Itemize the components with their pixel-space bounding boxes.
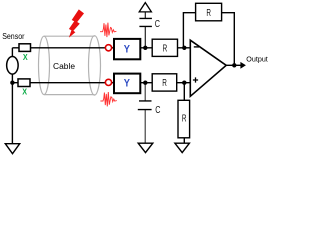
ground up triangle C1 [139,3,151,12]
svg-text:Cable: Cable [53,62,76,71]
noise burst top [100,23,116,37]
ground sensor [5,144,19,154]
junction sensor [10,81,14,85]
junction C1 tap [143,46,147,50]
wire top row [12,47,190,49]
output wire [226,64,241,66]
svg-text:R: R [163,43,168,55]
junction C2 tap [143,81,147,85]
wire C2 vertical [144,83,146,144]
svg-text:Sensor: Sensor [2,32,25,41]
svg-text:C: C [155,104,160,116]
wire R3 vertical [183,83,185,144]
connector node bottom red circle [105,79,111,85]
box X2 [18,79,30,87]
junction plus node [182,81,186,85]
svg-text:Output: Output [246,54,268,63]
resistor R4 feedback [196,3,222,21]
junction output node [232,63,236,67]
wire C1 vertical [144,12,146,48]
box Y1 [114,39,140,59]
svg-text:R: R [206,7,211,19]
lightning bolt EMI [69,9,84,37]
resistor R3 [178,100,190,138]
op-amp U1 [190,40,226,96]
svg-text:Y: Y [124,78,131,90]
capacitor C2 plates [138,101,152,110]
svg-text:R: R [182,113,187,125]
wire bottom row [12,82,190,84]
svg-text:X: X [22,86,27,96]
box X1 [19,44,31,52]
noise burst bottom [100,92,116,106]
svg-text:C: C [155,18,160,30]
ground C2 [138,143,153,152]
box Y2 [114,74,140,94]
resistor R2 [152,74,177,91]
junction minus node [182,46,186,50]
sensor source circle [7,57,19,75]
resistor R1 [152,39,177,56]
output arrowhead [240,62,246,69]
op-amp plus sign [193,77,198,82]
connector node top red circle [105,45,111,51]
svg-text:Y: Y [124,43,131,55]
wire sensor left vertical [11,48,13,144]
ground R3 [175,143,190,152]
capacitor C1 plates [139,18,152,26]
cable shield cylinder [39,36,101,95]
feedback wire [183,13,234,66]
svg-text:R: R [162,77,167,89]
svg-text:X: X [23,52,28,62]
op-amp minus sign [194,46,199,48]
